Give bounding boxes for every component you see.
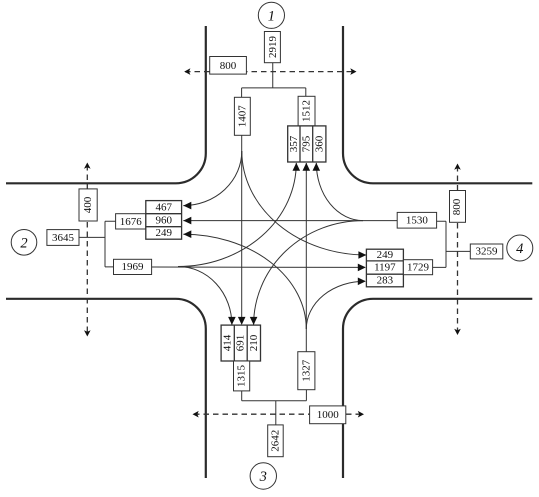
dashed count line north (185, 71, 356, 73)
flow S through (1327 to 795) (305, 163, 307, 390)
svg-text:1197: 1197 (374, 262, 396, 274)
box 800 north (210, 57, 247, 75)
arrowhead into 691 (238, 317, 246, 325)
arrowhead into 960 (183, 217, 191, 225)
svg-text:414: 414 (222, 334, 234, 351)
box 3645 (47, 230, 79, 246)
arrowhead into 467 (183, 202, 191, 210)
box 1327 (298, 352, 315, 390)
road corner bottom-left (6, 299, 206, 478)
arrowhead into 795 (303, 163, 311, 171)
svg-text:795: 795 (300, 135, 312, 152)
box 1315 (234, 361, 250, 391)
node circle 4 (507, 235, 533, 261)
svg-text:3: 3 (259, 469, 267, 485)
flow W right turn (1969 to 414) (178, 267, 232, 325)
box 1729 (403, 260, 432, 275)
east exit stack 249/1197/283 (366, 249, 403, 287)
svg-text:4: 4 (516, 241, 523, 257)
svg-text:283: 283 (377, 275, 394, 287)
box 1530 (397, 212, 436, 228)
flow N through (1407 to 691) (241, 135, 243, 319)
connector south split (242, 390, 307, 425)
road corner top-left (6, 26, 206, 183)
arrowhead into 357 (293, 163, 301, 171)
flow N right turn (1407 to 467) (183, 151, 242, 206)
dashed count line south (194, 413, 363, 415)
svg-text:249: 249 (377, 249, 394, 261)
svg-text:960: 960 (155, 214, 172, 226)
svg-text:800: 800 (220, 60, 237, 72)
dashed count line east (457, 166, 459, 333)
box 1000 (310, 406, 346, 424)
svg-text:2642: 2642 (269, 430, 281, 452)
box 1512 (298, 96, 315, 126)
connector west split (79, 221, 116, 267)
box 3259 (470, 244, 503, 259)
svg-text:3259: 3259 (476, 246, 499, 258)
svg-text:467: 467 (155, 201, 172, 213)
connector east split (433, 221, 471, 267)
svg-text:1729: 1729 (407, 261, 430, 273)
south exit stack 414/691/210 (221, 325, 260, 361)
svg-text:1407: 1407 (236, 105, 248, 128)
box 800 east (450, 191, 466, 223)
svg-text:1512: 1512 (301, 100, 313, 122)
road corner top-right (343, 26, 532, 183)
box 2919 (264, 32, 280, 63)
west exit stack 467/960/249 (146, 201, 182, 240)
svg-text:249: 249 (155, 227, 172, 239)
svg-text:360: 360 (313, 135, 325, 152)
node circle 2 (11, 230, 37, 256)
box 1969 (114, 259, 152, 274)
svg-text:3645: 3645 (52, 232, 75, 244)
arrowhead into 283 (358, 278, 366, 286)
svg-text:800: 800 (451, 198, 463, 215)
svg-text:2: 2 (20, 235, 27, 251)
svg-text:2919: 2919 (267, 36, 279, 59)
connector north split (242, 62, 306, 97)
arrowhead into 249 east (358, 251, 366, 259)
svg-text:1315: 1315 (236, 365, 248, 388)
box 2642 (268, 425, 284, 457)
arrowhead into 249 west (183, 230, 191, 238)
svg-text:691: 691 (235, 335, 247, 352)
box 400 west (79, 189, 97, 221)
svg-text:400: 400 (82, 196, 94, 213)
flow S left turn (1327 to 249 west) (183, 234, 306, 329)
arrowhead into 1197 (358, 264, 366, 272)
dashed count line west (86, 165, 88, 334)
arrowhead into 360 (313, 163, 321, 171)
svg-text:1000: 1000 (317, 409, 340, 421)
svg-text:210: 210 (248, 334, 260, 351)
flow W left turn (1969 to 357) (178, 163, 296, 267)
flow E left turn (1530 to 210) (254, 221, 363, 325)
flow N left turn (1407 to 249 east) (242, 151, 367, 255)
svg-text:1327: 1327 (300, 359, 312, 382)
arrowhead into 414 (228, 317, 236, 325)
svg-text:1: 1 (268, 8, 275, 24)
flow E through (1530 to 960) (183, 220, 397, 222)
arrowhead into 210 (250, 317, 258, 325)
node circle 1 (258, 2, 284, 28)
svg-text:1969: 1969 (122, 261, 145, 273)
svg-text:1676: 1676 (120, 216, 143, 228)
road corner bottom-right (343, 299, 532, 478)
svg-text:1530: 1530 (406, 214, 429, 226)
flow E right turn (1530 to 360) (316, 163, 363, 221)
svg-text:357: 357 (288, 135, 300, 152)
flow S right turn (1327 to 283) (306, 281, 365, 329)
box 1676 (116, 214, 146, 229)
box 1407 (234, 97, 250, 135)
flow W through (1969 to 1197) (152, 266, 365, 268)
north exit stack 357/795/360 (288, 126, 326, 162)
node circle 3 (250, 463, 276, 489)
